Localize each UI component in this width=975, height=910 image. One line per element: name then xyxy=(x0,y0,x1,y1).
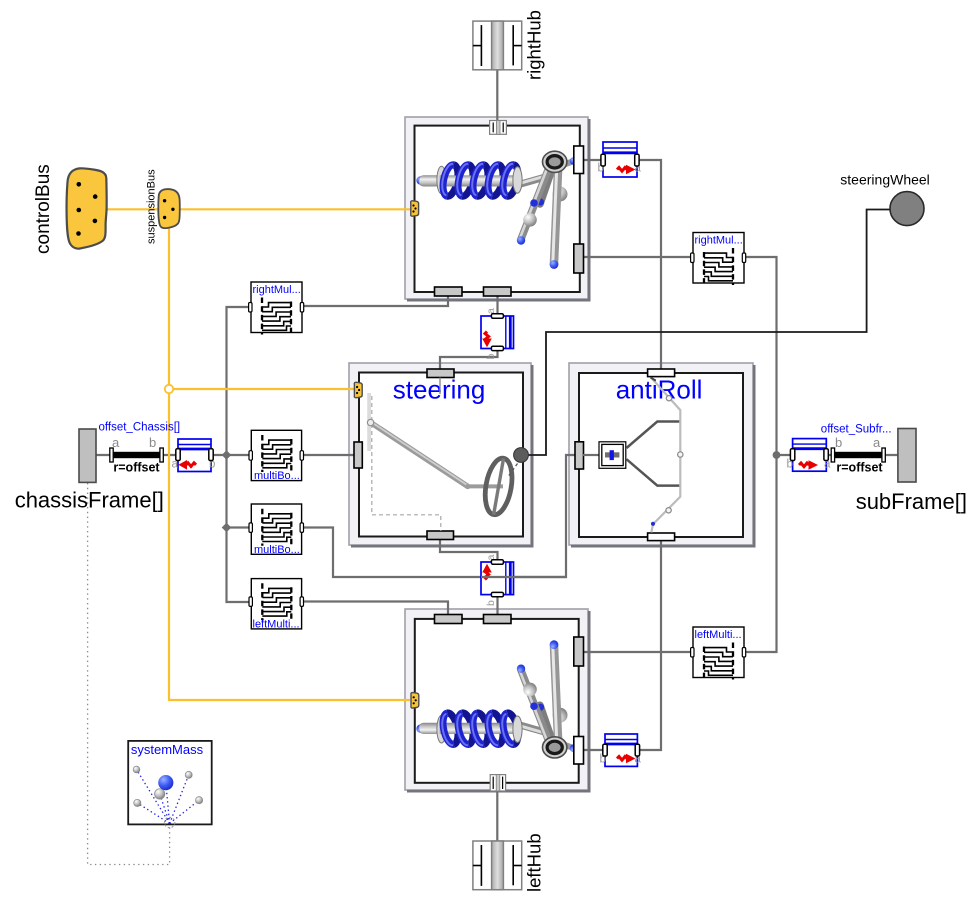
port bottom box top gray 2 xyxy=(484,615,512,624)
component offset_Subframe fixedTranslation xyxy=(821,424,892,475)
svg-text:r=offset: r=offset xyxy=(113,461,160,475)
tie rod to knuckle xyxy=(519,176,548,184)
wire trunk junction to multiBo2 xyxy=(227,526,251,528)
long strut rod xyxy=(554,171,558,263)
ring eye xyxy=(543,151,567,172)
antiRoll light link xyxy=(651,379,680,533)
component leftLinkage outer frame xyxy=(405,609,589,791)
wire rightHub to top box xyxy=(496,70,498,121)
wire multiBo1 to steering left port xyxy=(302,454,355,456)
svg-text:suspensionBus: suspensionBus xyxy=(146,169,158,244)
svg-text:rightMul...: rightMul... xyxy=(253,284,301,296)
wire chassisFrame to multiBo row xyxy=(96,454,250,456)
port top box mini hub xyxy=(490,121,507,135)
component force bottom-right xyxy=(600,734,642,766)
wire force BR to antiRoll bottom port xyxy=(637,540,661,750)
svg-text:multiBo...: multiBo... xyxy=(254,544,300,556)
knuckle rod back (dark) xyxy=(540,172,551,204)
wire suspensionBus down to bottom box bus connector xyxy=(169,224,410,700)
port bottom box mini hub xyxy=(490,775,505,791)
component force left (arrow left) xyxy=(172,439,216,472)
junction diamond left upper xyxy=(222,450,232,460)
node bus junction circle xyxy=(165,385,173,393)
port steering left gray xyxy=(354,442,362,468)
svg-text:a: a xyxy=(112,435,120,450)
component offset_Chassis fixedTranslation xyxy=(99,422,181,475)
dotted line chassisFrame to systemMass xyxy=(88,483,170,865)
wire steeringWheel to steering xyxy=(528,210,891,456)
svg-text:systemMass: systemMass xyxy=(131,742,204,757)
antiRoll wire left port to torsion box xyxy=(583,454,599,456)
steering wheel xyxy=(481,456,516,517)
port top box bus connector xyxy=(411,201,419,216)
steering column bar xyxy=(466,484,503,488)
wire force TR to antiRoll top port xyxy=(637,160,661,370)
port antiRoll top white xyxy=(648,369,675,377)
port top box bottom gray 2 xyxy=(484,287,512,296)
port top box right white xyxy=(574,146,584,174)
component rightMul (left column) xyxy=(249,282,304,335)
wire leftHub to bottom box xyxy=(496,790,498,841)
coil spring front strands xyxy=(442,164,514,196)
steering dashed outline xyxy=(372,396,441,531)
port top box bottom gray 1 xyxy=(435,287,463,296)
svg-text:subFrame[]: subFrame[] xyxy=(856,489,967,514)
wire damper top to steering top port xyxy=(440,348,498,371)
wire junction to force R xyxy=(777,454,794,456)
component suspensionBus xyxy=(158,189,180,228)
wire left trunk xyxy=(227,307,251,602)
antiRoll blue dot xyxy=(651,522,655,526)
spring rod left xyxy=(416,176,424,184)
svg-text:b: b xyxy=(485,354,497,360)
port bottom box right gray xyxy=(574,637,584,666)
junction diamond left lower xyxy=(222,523,232,533)
component leftMulti (left column) xyxy=(249,579,304,631)
svg-text:b: b xyxy=(149,435,156,450)
link to right port xyxy=(560,162,573,167)
component multiBo 1 (left column) xyxy=(249,430,304,482)
gray joint sphere behind xyxy=(553,187,568,202)
junction dot right xyxy=(773,451,781,459)
lower control arm rod with ball xyxy=(521,170,548,239)
systemMass rays xyxy=(137,770,200,824)
svg-text:antiRoll: antiRoll xyxy=(616,375,703,405)
svg-text:b: b xyxy=(485,600,497,606)
antiRoll joint circles xyxy=(666,396,671,401)
svg-text:rightHub: rightHub xyxy=(524,10,545,80)
wire bottom box white port to force BR xyxy=(583,749,605,751)
component antiRoll box xyxy=(569,363,754,546)
spring right disc xyxy=(513,167,522,193)
systemMass dashed circle xyxy=(164,817,174,827)
systemMass spheres xyxy=(133,766,140,773)
port steering bottom gray xyxy=(427,531,454,540)
svg-text:chassisFrame[]: chassisFrame[] xyxy=(15,488,164,513)
component rightHub xyxy=(473,21,522,70)
svg-text:offset_Chassis[]: offset_Chassis[] xyxy=(99,422,181,434)
component force right (arrow right) xyxy=(787,439,832,472)
port antiRoll bottom white xyxy=(648,533,675,541)
svg-text:leftMulti...: leftMulti... xyxy=(253,618,300,630)
wire leftMulti(L) to bottom box port xyxy=(302,602,448,618)
wire bus branch to steering xyxy=(169,388,354,390)
antiRoll bar upper arm xyxy=(627,422,681,449)
component damper bottom (vertical, arrow up) xyxy=(481,555,514,607)
connector subFrame xyxy=(898,429,916,483)
svg-text:rightMul...: rightMul... xyxy=(695,234,743,246)
svg-text:offset_Subfr...: offset_Subfr... xyxy=(821,424,892,436)
component force top-right xyxy=(598,142,642,177)
svg-text:r=offset: r=offset xyxy=(836,461,883,475)
steering rack light bar xyxy=(367,393,371,451)
coil spring back strands xyxy=(447,165,518,196)
spring shaft through coil xyxy=(440,176,520,187)
wire multiBo2 to antiRoll left port xyxy=(302,455,577,577)
antiRoll torsion element box xyxy=(599,442,626,469)
steering drag link diagonal xyxy=(371,423,468,487)
svg-text:a: a xyxy=(873,435,881,450)
component leftHub xyxy=(473,841,522,890)
steering top port pin xyxy=(439,378,441,395)
svg-text:leftHub: leftHub xyxy=(524,833,545,892)
connector chassisFrame xyxy=(79,429,96,482)
component controlBus xyxy=(67,168,107,248)
port steering top gray xyxy=(427,369,454,378)
wire top box gray port to rightMul(R) xyxy=(583,256,693,258)
svg-text:steering: steering xyxy=(393,375,486,405)
steering flange dark circle xyxy=(514,448,529,463)
wire damper bottom to bottom box port2 xyxy=(496,594,498,617)
steering pivot circle xyxy=(367,419,373,425)
port steering bus connector xyxy=(354,382,362,397)
antiRoll bar lower arm xyxy=(627,459,681,485)
svg-text:multiBo...: multiBo... xyxy=(254,470,300,482)
port bottom box right white xyxy=(574,737,584,765)
wire suspensionBus to top box bus connector xyxy=(179,208,410,210)
spring left disc xyxy=(437,166,446,194)
component rightLinkage outer frame xyxy=(405,117,589,300)
wire force R to subFrame xyxy=(826,454,898,456)
component steering box xyxy=(349,363,532,546)
wire rightMul(R) down right trunk to leftMulti(R) xyxy=(744,257,777,652)
component steeringWheel xyxy=(890,192,924,226)
svg-text:controlBus: controlBus xyxy=(33,164,54,254)
wire controlBus to suspensionBus xyxy=(107,208,159,210)
wire through damper bottom (crossing) xyxy=(481,576,566,578)
component damper top (vertical, arrow down) xyxy=(481,308,514,360)
component leftMulti (right column) xyxy=(691,627,746,680)
component multiBo 2 (left column) xyxy=(249,504,304,556)
port top box right gray xyxy=(574,244,584,273)
svg-text:leftMulti...: leftMulti... xyxy=(695,629,742,641)
suspension linkage art mirrored (bottom box) xyxy=(416,640,577,758)
svg-text:b: b xyxy=(835,435,842,450)
steering dashed tick xyxy=(508,464,518,478)
wire top box white port to force TR xyxy=(583,159,604,161)
svg-text:steeringWheel: steeringWheel xyxy=(840,172,930,188)
wire rightMul(L) to top box port xyxy=(302,290,448,306)
port bottom box top gray 1 xyxy=(435,615,463,624)
port bottom box bus connector xyxy=(411,693,419,708)
wire steering bottom port to damper bottom xyxy=(440,538,498,563)
component rightMul (right column) xyxy=(691,233,746,286)
port antiRoll left gray xyxy=(575,442,584,469)
wire top box port2 to damper top xyxy=(496,294,498,317)
wire bottom box gray port to leftMulti(R) xyxy=(583,651,693,653)
component systemMass box xyxy=(128,741,212,825)
